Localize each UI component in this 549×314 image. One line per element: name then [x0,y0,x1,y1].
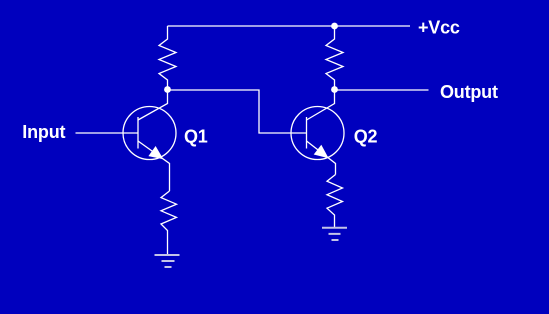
arrowhead Q1 emitter [148,146,163,159]
wire Vcc rail [168,25,411,27]
svg-text:Q2: Q2 [354,126,378,146]
resistor R4 (Q2 emitter) [327,175,343,228]
transistor Q2 emitter lead [307,141,336,175]
transistor Q1 emitter lead [138,141,170,191]
resistor R3 (Q2 collector) [326,26,343,87]
transistor Q1 base bar [137,117,139,149]
node dot: Q1 collector node [164,86,171,93]
node dot: Q2 collector / output node [331,86,338,93]
transistor Q2 collector lead [307,90,335,121]
resistor R2 (Q1 emitter) [161,191,177,255]
wire input lead [76,132,139,134]
transistor Q1 circle [123,107,176,160]
node dot: Vcc rail / R3 junction [331,23,338,30]
transistor Q2 circle [291,107,344,160]
ground (Q1 emitter) [155,255,180,267]
resistor R1 (Q1 collector) [159,26,176,87]
wire output lead [335,89,429,91]
svg-text:Output: Output [440,82,498,102]
svg-text:+Vcc: +Vcc [418,18,460,38]
transistor Q1 collector lead [138,90,168,121]
ground (Q2 emitter) [322,228,347,240]
arrowhead Q2 emitter [314,145,329,159]
svg-text:Input: Input [22,122,65,142]
transistor Q2 base bar [306,117,308,149]
svg-text:Q1: Q1 [184,126,208,146]
wire Q1 collector node to Q2 base [168,90,307,133]
